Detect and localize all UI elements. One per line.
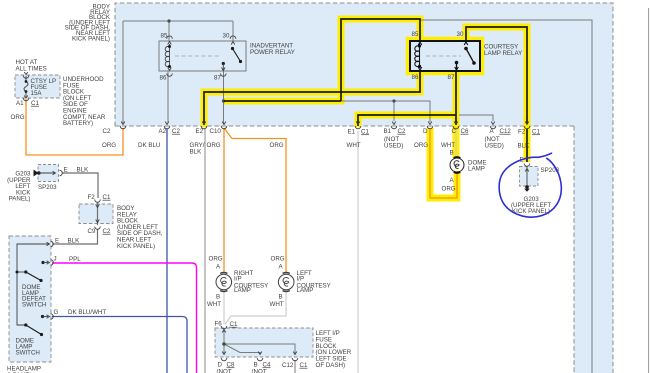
svg-text:C12: C12 (282, 362, 294, 369)
dashed relay link (426, 55, 461, 57)
svg-text:ORG: ORG (11, 114, 25, 121)
junction dot top bus pin 85 (167, 19, 170, 22)
svg-text:BLK: BLK (77, 167, 90, 174)
wire pin 30 courtesy to F2 (466, 27, 527, 124)
wire pin 87 courtesy to C connector (455, 71, 457, 125)
svg-text:ORG: ORG (270, 142, 284, 149)
wire E1 jumper to C (358, 115, 456, 126)
svg-text:G: G (54, 309, 59, 316)
junction dot B1 stub (392, 99, 395, 102)
wire top bus inadvertent (123, 20, 233, 22)
svg-text:F6: F6 (215, 321, 223, 328)
blue pen circle around G203 (499, 153, 561, 217)
connector C12 C1 (293, 352, 297, 355)
connector E right (524, 164, 530, 167)
fuse CTSY LP 15A (24, 76, 28, 97)
dome lamp defeat switch blade (16, 271, 19, 274)
svg-text:87: 87 (448, 74, 455, 81)
svg-text:F2: F2 (88, 194, 96, 201)
connector E switch (51, 241, 54, 247)
wire BLK G203 to F2C1 (62, 173, 98, 198)
connector F2 C1 row (524, 122, 530, 129)
svg-text:J: J (54, 256, 57, 263)
svg-text:ORG: ORG (442, 186, 456, 193)
svg-text:LAMP: LAMP (468, 166, 485, 173)
dashed relay link (175, 55, 220, 57)
svg-text:ORG: ORG (207, 142, 221, 149)
svg-text:USED): USED) (485, 142, 504, 149)
svg-text:BLK: BLK (190, 148, 203, 155)
wire PPL J (52, 263, 197, 373)
svg-text:ORG: ORG (102, 142, 116, 149)
svg-text:87: 87 (214, 75, 221, 82)
svg-text:(NOT: (NOT (252, 368, 267, 373)
wire 87 junction to pin 85 courtesy (341, 19, 420, 101)
switch internal bus (17, 244, 49, 325)
svg-text:85: 85 (412, 31, 419, 38)
svg-text:KICK PANEL): KICK PANEL) (117, 243, 155, 250)
yellow core over 87 junction segment (224, 100, 341, 102)
svg-text:LAMP: LAMP (297, 287, 314, 294)
svg-text:USED): USED) (384, 142, 403, 149)
svg-text:PPL: PPL (69, 256, 81, 263)
wire BLK C9 to switch E (52, 229, 98, 244)
svg-text:A1: A1 (16, 100, 24, 107)
wire WHT E1 down (357, 131, 359, 373)
svg-text:85: 85 (161, 33, 168, 40)
svg-text:WHT: WHT (270, 301, 284, 308)
svg-text:DK BLU: DK BLU (138, 142, 160, 149)
wire ORG C10 to right lamp (223, 129, 225, 273)
connector E G203 left (60, 170, 63, 176)
page right border (648, 8, 650, 373)
wire ORG C10 to left lamp (224, 128, 286, 273)
right I/P courtesy lamp (216, 273, 232, 292)
svg-text:LAMP: LAMP (234, 287, 251, 294)
junction dot pin 87 branch (222, 99, 225, 102)
SP203 left box (38, 165, 59, 182)
svg-text:ORG: ORG (209, 256, 223, 263)
connector C2 row (120, 122, 126, 129)
left I/P courtesy lamp (278, 273, 294, 292)
svg-text:D: D (423, 128, 428, 135)
svg-text:30: 30 (223, 33, 230, 40)
svg-text:ALL TIMES: ALL TIMES (16, 65, 47, 72)
wire 85 inadvertent (168, 21, 170, 41)
svg-text:C: C (452, 128, 457, 135)
wire GRY/BLK E2 down (204, 129, 206, 373)
wire BLK through body relay box (97, 203, 99, 226)
connector A C12 row (490, 122, 496, 129)
svg-text:E: E (55, 238, 59, 245)
ground G203 right (525, 185, 529, 189)
svg-text:E: E (64, 167, 68, 174)
connector J switch (51, 260, 54, 266)
connector E1 C1 row (355, 122, 361, 129)
left I/P fuse block box (215, 328, 313, 357)
relay switch contacts inadvertent (222, 47, 242, 71)
splice SP203 right (526, 166, 528, 187)
svg-text:WHT: WHT (207, 301, 221, 308)
svg-text:B: B (450, 150, 454, 157)
label body relay block top (65, 4, 111, 43)
svg-text:DK BLU/WHT: DK BLU/WHT (68, 309, 106, 316)
svg-text:(NOT: (NOT (217, 368, 232, 373)
relay K2 box (410, 41, 480, 71)
wire 30 inadvertent (232, 21, 234, 41)
svg-text:POWER RELAY: POWER RELAY (250, 49, 295, 56)
fuse box bottom connector A1 C1 (23, 98, 29, 101)
wire 87 branch to D (224, 101, 430, 122)
fuse box top connector (24, 72, 28, 75)
highlight E1 / pin 87 courtesy / C (358, 115, 456, 127)
wire stub A not used (459, 115, 493, 121)
svg-text:86: 86 (412, 74, 419, 81)
junction dot F6 fuse block (222, 342, 226, 346)
svg-text:E1: E1 (348, 129, 356, 136)
svg-text:WHT: WHT (347, 142, 361, 149)
connector D row (427, 122, 433, 129)
label G203 left (7, 171, 31, 203)
wire C2 up (122, 21, 124, 123)
connector B C4 (258, 352, 262, 355)
relay pin arrows courtesy (418, 42, 468, 70)
connector F6 C1 (221, 326, 227, 329)
svg-text:C9: C9 (88, 228, 96, 235)
connector C C6 row (453, 122, 459, 129)
connector D C8 (222, 352, 226, 355)
dome lamp switch box (9, 236, 51, 362)
svg-text:BATTERY): BATTERY) (63, 120, 93, 127)
dome lamp (450, 157, 464, 173)
wire 86 inadvertent to A2 (167, 71, 169, 123)
highlight pin 30 to F2 to SP203 (466, 27, 527, 162)
connector E2 row (201, 122, 207, 129)
relay switch contacts courtesy (455, 47, 476, 71)
svg-text:OF DASH): OF DASH) (316, 362, 346, 369)
wire stub B1 not used (393, 101, 395, 121)
svg-text:F2: F2 (518, 129, 526, 136)
svg-text:KICK PANEL): KICK PANEL) (72, 35, 110, 42)
wire BLK F2 to SP203 (526, 129, 528, 162)
wire WHT right lamp to F6 (223, 291, 225, 325)
courtesy relay yellow halo (410, 41, 480, 71)
svg-text:15A: 15A (31, 90, 43, 97)
connector G switch (51, 314, 54, 320)
underhood fuse block box (15, 75, 60, 98)
wire 87 inadvertent to C10 (223, 71, 225, 124)
svg-text:B1: B1 (384, 128, 392, 135)
svg-text:SWITCH: SWITCH (22, 301, 46, 308)
connector A2 C2 row (164, 122, 170, 129)
connector B1 C2 row (391, 122, 397, 129)
body relay block small box (left) (79, 204, 113, 224)
wire top right to page bottom (420, 20, 592, 373)
svg-text:BLK: BLK (518, 143, 531, 150)
body relay block (large light blue dashed box with tail band) (115, 3, 613, 373)
svg-text:SP203: SP203 (38, 184, 57, 191)
svg-text:30: 30 (457, 31, 464, 38)
svg-text:B: B (279, 294, 283, 301)
highlight dome lamp loop (430, 128, 457, 198)
coil courtesy relay (415, 43, 420, 67)
wire below C12 C1 (294, 360, 296, 373)
coil inadvertent relay (165, 44, 169, 67)
wire ORG D to dome lamp (430, 129, 457, 198)
relay pin arrows inadvertent (167, 36, 236, 76)
connector C10 row (221, 122, 227, 129)
contact J (41, 261, 44, 264)
underlines for connector names (31, 106, 540, 368)
svg-text:PANEL): PANEL) (9, 196, 31, 203)
highlight 87 inadvertent to pin 85 courtesy (224, 19, 420, 101)
svg-text:C10: C10 (210, 128, 222, 135)
svg-text:C2: C2 (103, 128, 111, 135)
splice SP203 left arrow (39, 172, 55, 174)
wire ORG fuse to C2 (26, 99, 123, 155)
SP203 right box (520, 167, 539, 187)
wire DK BLU/WHT G (52, 317, 187, 373)
relay U1 box (159, 41, 246, 71)
wire E2 to pin 86 courtesy (204, 71, 420, 125)
wire F6 fuse block internals (223, 329, 225, 354)
connector F2 C1 left (95, 200, 101, 203)
svg-text:86: 86 (160, 75, 167, 82)
dome lamp switch blade (24, 323, 27, 326)
svg-text:SWITCH: SWITCH (16, 350, 40, 357)
svg-text:A2: A2 (159, 128, 167, 135)
wire WHT left lamp to F6 (225, 291, 286, 325)
svg-text:ORG: ORG (271, 256, 285, 263)
ground G203 left (34, 170, 39, 177)
contact G (41, 315, 44, 318)
svg-text:B: B (216, 294, 220, 301)
connector C9 C2 left (96, 220, 100, 223)
wire DK BLU A2 down (166, 129, 168, 373)
highlight E2 to relay pin 86 (204, 71, 420, 127)
svg-text:ORG: ORG (414, 142, 428, 149)
svg-text:BLK: BLK (68, 238, 81, 245)
svg-text:WHT: WHT (441, 142, 455, 149)
wire WHT C to dome lamp (455, 129, 457, 158)
svg-text:E2: E2 (196, 128, 204, 135)
svg-text:LAMP RELAY: LAMP RELAY (484, 50, 522, 57)
